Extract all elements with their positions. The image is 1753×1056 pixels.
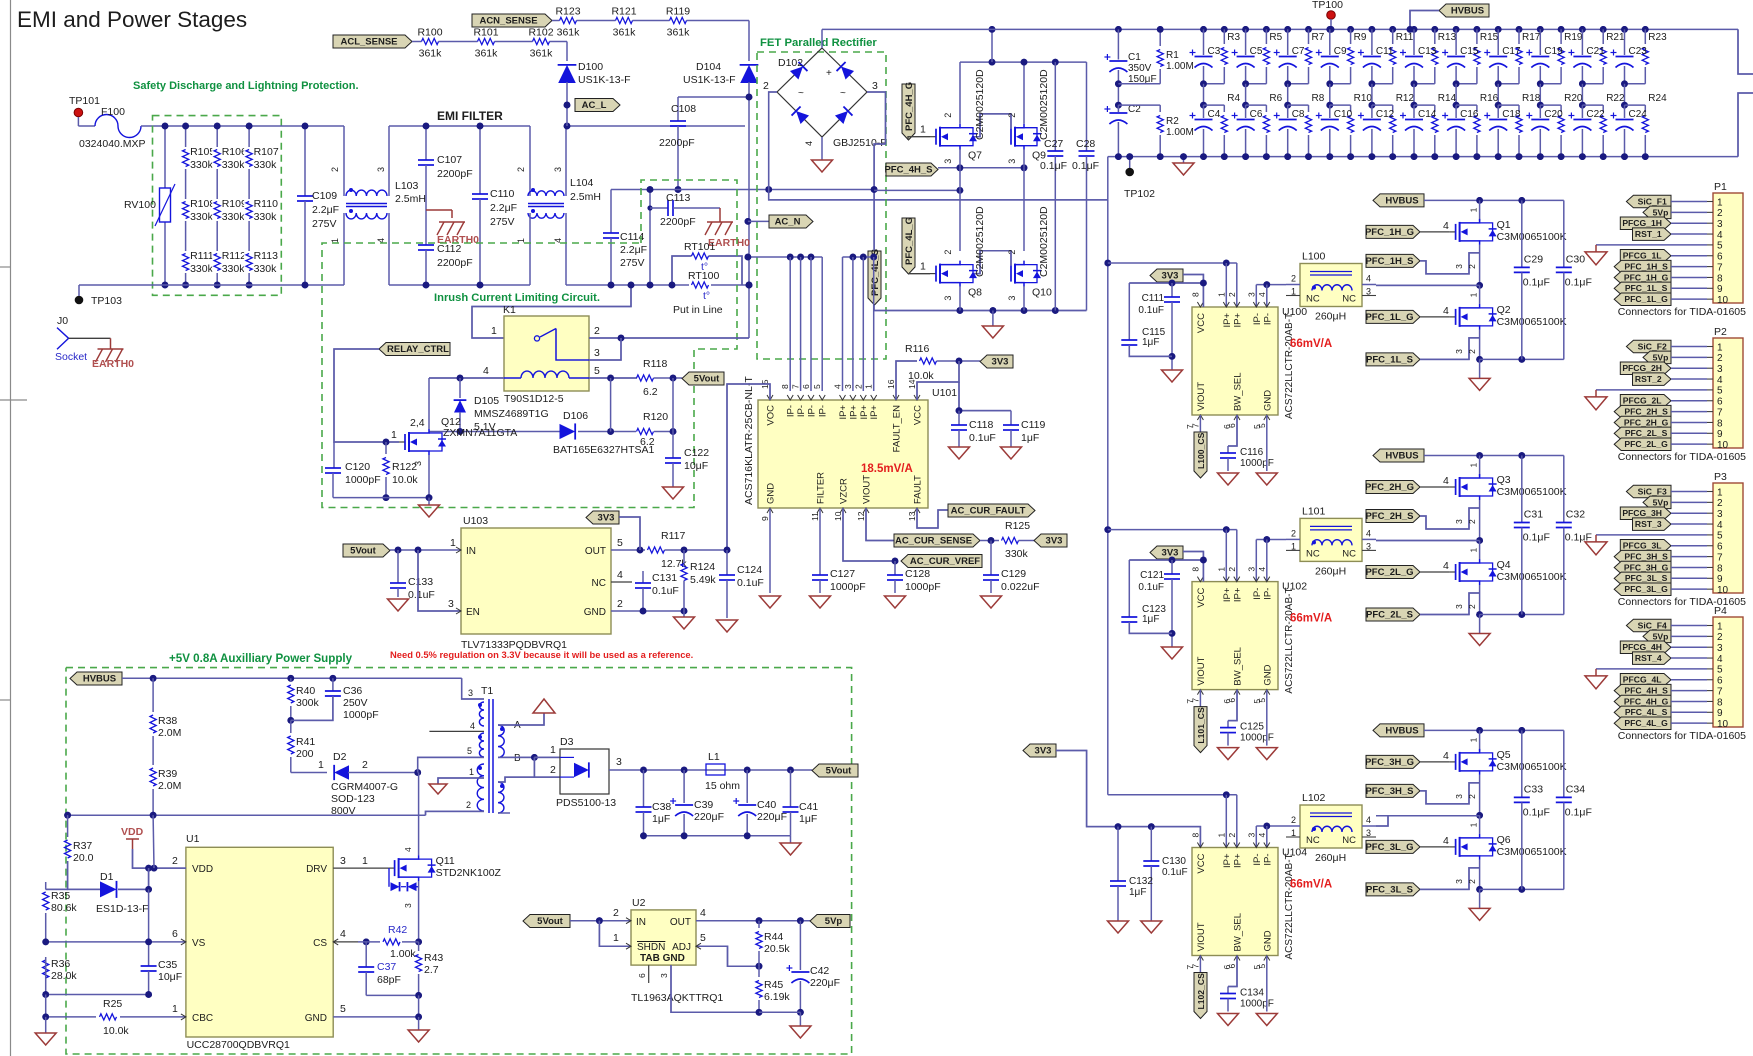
svg-text:NC: NC (1342, 548, 1356, 559)
svg-text:NC: NC (1306, 548, 1320, 559)
net flag RST_4 P4 (1633, 652, 1672, 665)
svg-text:6: 6 (1717, 676, 1723, 687)
resistor R37 20.0 (67, 815, 69, 837)
svg-text:1: 1 (1216, 567, 1226, 572)
net flag 3V3 bottom (1023, 744, 1056, 757)
svg-text:330k: 330k (254, 263, 278, 275)
capacitor C35 10uF (148, 942, 150, 966)
capacitor C115 (1128, 283, 1130, 340)
svg-text:1: 1 (491, 325, 497, 337)
svg-text:5Vp: 5Vp (825, 916, 843, 927)
svg-text:PFC_1L_S: PFC_1L_S (1366, 355, 1413, 366)
svg-text:3: 3 (1717, 364, 1723, 375)
capacitor C114 2.2uF 275V (610, 190, 612, 234)
net flag ACL_SENSE (333, 35, 412, 48)
resistor R116 10.0k (896, 361, 917, 400)
svg-text:TP100: TP100 (1312, 0, 1343, 11)
svg-text:Connectors for TIDA-01605: Connectors for TIDA-01605 (1618, 451, 1746, 463)
svg-text:R41: R41 (296, 736, 315, 748)
svg-text:350V: 350V (1128, 63, 1152, 74)
wire Q11 drain (418, 773, 420, 856)
ground below C127 (810, 596, 831, 608)
svg-text:R117: R117 (661, 530, 685, 542)
svg-text:PFC_4H_G: PFC_4H_G (1624, 696, 1669, 706)
svg-text:2: 2 (1467, 879, 1477, 884)
wire PFC_4L_S bus (874, 305, 1087, 311)
svg-text:RST_3: RST_3 (1635, 519, 1662, 529)
svg-text:R9: R9 (1354, 32, 1367, 43)
ground below C133 (388, 599, 409, 611)
svg-text:C37: C37 (377, 961, 396, 973)
svg-text:5Vout: 5Vout (694, 374, 721, 385)
svg-text:6: 6 (1717, 252, 1723, 263)
svg-text:R40: R40 (296, 685, 315, 697)
svg-text:D104: D104 (696, 61, 721, 73)
svg-text:5: 5 (617, 537, 623, 549)
svg-text:275V: 275V (312, 218, 337, 230)
svg-text:SiC_F2: SiC_F2 (1638, 341, 1667, 351)
svg-text:275V: 275V (490, 216, 515, 228)
svg-text:3: 3 (843, 384, 853, 389)
svg-text:0.1uF: 0.1uF (1138, 305, 1164, 316)
varistor RV100 (164, 126, 166, 188)
svg-text:5: 5 (1717, 665, 1723, 676)
svg-text:R45: R45 (764, 979, 783, 991)
svg-text:2: 2 (1717, 208, 1723, 219)
top bus segment A (y=126) (165, 125, 344, 127)
svg-text:PFC_3L_S: PFC_3L_S (1625, 573, 1668, 583)
svg-text:Q6: Q6 (1497, 834, 1511, 846)
op-amp U100 ACS722LLCTR-20AB-T box (1192, 307, 1278, 415)
svg-text:2: 2 (1467, 349, 1477, 354)
svg-text:C20: C20 (1544, 109, 1563, 120)
svg-text:3V3: 3V3 (992, 357, 1009, 368)
svg-text:RV100: RV100 (124, 199, 156, 211)
resistor R111 330k (181, 251, 191, 273)
svg-text:361k: 361k (557, 27, 581, 39)
net flag PFC_4H_G P4 (1614, 695, 1671, 708)
svg-text:Inrush Current Limiting Circui: Inrush Current Limiting Circuit. (434, 292, 600, 304)
net flag PFCG_3H P3 (1620, 507, 1671, 520)
wire C118/C119 bus (959, 382, 1011, 411)
ground below C118 (949, 447, 970, 459)
svg-text:DRV: DRV (306, 864, 327, 875)
svg-text:NC: NC (592, 578, 606, 589)
wire kelvin Q4 (1420, 593, 1480, 615)
ground below Q2 (1479, 359, 1481, 378)
capacitor C1 150uF 350V (1115, 26, 1122, 33)
svg-text:3V3: 3V3 (1162, 548, 1179, 559)
svg-text:L102: L102 (1302, 792, 1326, 804)
capacitor C132 (1117, 827, 1119, 881)
wire drain Q1 (1479, 200, 1481, 221)
svg-text:2: 2 (1007, 113, 1017, 118)
wire GND pin2 (611, 610, 684, 612)
svg-text:2: 2 (1467, 794, 1477, 799)
svg-text:3: 3 (616, 756, 622, 768)
svg-text:IP+: IP+ (1232, 853, 1243, 868)
svg-text:2: 2 (1291, 274, 1296, 284)
svg-text:SOD-123: SOD-123 (331, 793, 375, 805)
resistor R101 361k (478, 38, 495, 44)
capacitor C41 1uF (790, 770, 792, 807)
svg-text:L100: L100 (1302, 251, 1326, 263)
svg-text:ES1D-13-F: ES1D-13-F (96, 903, 149, 915)
svg-text:2: 2 (516, 167, 526, 172)
ground C130 (1141, 921, 1162, 933)
net flag PFCG_2H P2 (1620, 362, 1671, 375)
ground below bridge (812, 160, 833, 172)
svg-text:GND: GND (584, 607, 606, 618)
svg-text:Safety Discharge and Lightning: Safety Discharge and Lightning Protectio… (133, 80, 359, 92)
connector P3 box (1713, 483, 1743, 593)
svg-text:C128: C128 (905, 568, 930, 580)
svg-text:T90S1D12-5: T90S1D12-5 (504, 393, 564, 405)
svg-text:C111: C111 (1142, 293, 1165, 304)
svg-text:275V: 275V (620, 257, 645, 269)
svg-text:C13: C13 (1418, 46, 1437, 57)
svg-text:2: 2 (1007, 250, 1017, 255)
svg-text:EN: EN (466, 607, 480, 618)
svg-text:R43: R43 (424, 952, 443, 964)
capacitor C8 / resistor R8 bottom row (1287, 84, 1289, 105)
net flag AC_CUR_VREF (901, 555, 982, 568)
svg-text:TP103: TP103 (91, 295, 122, 307)
svg-text:TP102: TP102 (1124, 188, 1155, 200)
green dashed box Inrush Current Limiting (322, 180, 737, 508)
svg-text:6: 6 (801, 384, 811, 389)
op-amp U104 ACS722LLCTR-20AB-T box (1192, 848, 1278, 956)
svg-text:C107: C107 (437, 154, 462, 166)
svg-text:2: 2 (466, 800, 471, 810)
svg-text:C3M0065100K: C3M0065100K (1497, 761, 1567, 773)
net flag PFC_2H_G P2 (1614, 416, 1671, 429)
wire C37/R43 bottom (366, 994, 418, 996)
net flag HVBUS cell Q5 (1373, 724, 1424, 737)
svg-text:SiC_F4: SiC_F4 (1638, 620, 1667, 630)
svg-text:R1: R1 (1166, 50, 1179, 61)
svg-text:C3M0065100K: C3M0065100K (1497, 316, 1567, 328)
svg-text:ACS722LLCTR-20AB-T: ACS722LLCTR-20AB-T (1284, 587, 1295, 693)
svg-text:5.49k: 5.49k (690, 574, 716, 586)
sheet border left edge (10, 0, 12, 1056)
resistor R105 330k (181, 147, 191, 169)
capacitor C17 / resistor R17 top row (1495, 26, 1502, 33)
wire HVBUS rail Q3 (1424, 455, 1564, 457)
svg-text:C4: C4 (1208, 109, 1221, 120)
svg-text:D106: D106 (563, 410, 588, 422)
svg-text:8: 8 (1190, 833, 1200, 838)
svg-text:VCC: VCC (913, 405, 924, 425)
svg-text:VCC: VCC (1196, 313, 1207, 333)
net flag AC_L (564, 102, 571, 109)
ground below U102 (1256, 748, 1277, 760)
wire Q6 source to bottom (1479, 860, 1481, 890)
svg-text:9: 9 (1717, 574, 1723, 585)
svg-text:F100: F100 (101, 106, 125, 118)
net flag 3V3 at R125 (1034, 534, 1067, 547)
svg-text:C109: C109 (312, 190, 337, 202)
connector P1 box (1713, 193, 1743, 303)
wire IP- drops (789, 257, 791, 391)
svg-text:IP-: IP- (1252, 313, 1263, 325)
net flag PFC_3L_G P3 (1614, 583, 1671, 596)
svg-text:1: 1 (1717, 621, 1723, 632)
wire VDD to U1 (133, 849, 186, 868)
svg-text:0.1uF: 0.1uF (737, 577, 764, 589)
svg-text:4: 4 (1443, 560, 1449, 572)
svg-text:C40: C40 (757, 799, 776, 811)
net flag PFC_1L_S (1366, 353, 1420, 366)
wire R39 bottom to VDD row (152, 815, 155, 868)
svg-text:4: 4 (1257, 833, 1267, 838)
svg-text:12: 12 (856, 511, 866, 521)
svg-text:C38: C38 (652, 801, 671, 813)
svg-text:R3: R3 (1227, 32, 1240, 43)
capacitor C125 1000pF (1227, 721, 1229, 728)
svg-text:PFC_4L_G: PFC_4L_G (904, 217, 915, 265)
svg-text:20.5k: 20.5k (764, 943, 790, 955)
vertical flag PFC_4H_G (902, 84, 915, 140)
wire winding B (498, 756, 534, 758)
transistor Q8 C2M0025120D (930, 273, 936, 275)
net flag 5Vp P1 (1643, 206, 1671, 219)
svg-text:66mV/A: 66mV/A (1290, 879, 1332, 891)
capacitor C123 (1128, 560, 1130, 617)
svg-text:200: 200 (296, 748, 314, 760)
svg-text:1: 1 (550, 744, 556, 756)
wire IP- bus U102 (1256, 539, 1286, 541)
ground below C129 (981, 596, 1002, 608)
wire IP+ bus to U100 (1108, 262, 1237, 264)
resistor R42 1.00k (383, 939, 400, 945)
resistor R125 330k (1002, 537, 1019, 543)
wire DRV row (333, 867, 388, 869)
net flag PFCG_3L P3 (1620, 540, 1671, 553)
svg-text:C34: C34 (1566, 783, 1585, 795)
svg-text:7: 7 (1717, 407, 1723, 418)
svg-text:BW_SEL: BW_SEL (1233, 913, 1244, 952)
transformer T1 secondary (498, 725, 504, 757)
svg-text:1: 1 (920, 124, 926, 136)
test point TP102 (1129, 157, 1131, 168)
capacitor C40 220uF (746, 770, 748, 803)
svg-text:300k: 300k (296, 697, 320, 709)
svg-text:PFC_3L_G: PFC_3L_G (1624, 584, 1668, 594)
svg-text:1μF: 1μF (1142, 614, 1159, 625)
svg-text:R17: R17 (1522, 32, 1541, 43)
wire drain Q3 (1479, 456, 1481, 477)
svg-text:8: 8 (1190, 567, 1200, 572)
net flag 5Vout at U103 (343, 544, 390, 557)
svg-text:5Vout: 5Vout (350, 546, 377, 557)
svg-text:L101_CS: L101_CS (1196, 707, 1206, 744)
inductor L100 260uH (1300, 264, 1362, 307)
common-mode choke L103 2.5mH (343, 126, 345, 196)
svg-text:L101: L101 (1302, 505, 1326, 517)
resistor R41 200 (288, 736, 294, 754)
svg-text:3: 3 (1717, 509, 1723, 520)
capacitor C2 (1117, 105, 1119, 112)
svg-text:5: 5 (340, 1003, 346, 1015)
svg-text:260μH: 260μH (1315, 565, 1346, 577)
test point TP101 (74, 108, 83, 117)
svg-text:C2M0025120D: C2M0025120D (1038, 69, 1050, 140)
wire D3 inputs (534, 756, 560, 758)
svg-text:0.1uF: 0.1uF (408, 589, 435, 601)
svg-text:R8: R8 (1312, 93, 1325, 104)
svg-text:PFCG_3L: PFCG_3L (1623, 541, 1662, 551)
resistor R120 6.2 (637, 428, 654, 434)
ground below C42 (799, 1012, 801, 1026)
svg-text:PFCG_2L: PFCG_2L (1623, 396, 1662, 406)
svg-text:18.5mV/A: 18.5mV/A (861, 463, 913, 475)
svg-text:361k: 361k (475, 48, 499, 60)
svg-text:NC: NC (1306, 835, 1320, 846)
svg-text:PFCG_1L: PFCG_1L (1623, 251, 1662, 261)
svg-text:PFC_2L_G: PFC_2L_G (1365, 567, 1413, 578)
svg-text:1: 1 (1469, 463, 1479, 468)
svg-text:T1: T1 (481, 685, 493, 697)
capacitor C24 / resistor R24 bottom row (1624, 84, 1626, 105)
svg-text:IP-: IP- (786, 405, 797, 417)
wire Q2 source to bottom (1479, 330, 1481, 360)
svg-text:C15: C15 (1460, 46, 1479, 57)
svg-text:US1K-13-F: US1K-13-F (683, 74, 736, 86)
svg-text:ACS722LLCTR-20AB-T: ACS722LLCTR-20AB-T (1284, 853, 1295, 959)
svg-text:NC: NC (1306, 294, 1320, 305)
svg-text:1000pF: 1000pF (830, 581, 866, 593)
svg-text:VIOUT: VIOUT (862, 475, 873, 504)
net flag PFCG_4H P4 (1620, 641, 1671, 654)
resistor R106 330k (212, 147, 222, 169)
svg-text:0.1μF: 0.1μF (1040, 160, 1067, 172)
svg-text:C11: C11 (1376, 46, 1394, 57)
svg-text:220μF: 220μF (810, 977, 840, 989)
resistor R43 2.7 (418, 942, 420, 951)
resistor R35 80.6k (45, 882, 47, 889)
svg-text:C134: C134 (1240, 988, 1264, 999)
svg-text:R122: R122 (392, 461, 417, 473)
svg-text:3V3: 3V3 (1162, 271, 1179, 282)
net flag PFC_3H_G (1366, 755, 1420, 768)
wire kelvin Q3 (1420, 508, 1480, 529)
svg-text:R11: R11 (1396, 32, 1414, 43)
svg-text:C12: C12 (1376, 109, 1395, 120)
svg-text:260μH: 260μH (1315, 311, 1346, 323)
wire IP- bus (748, 256, 822, 258)
capacitor C3 / resistor R3 top row (1200, 26, 1207, 33)
svg-text:R23: R23 (1648, 32, 1667, 43)
wire 5Vout to IN (570, 920, 631, 922)
wire bridge left (AC) (769, 92, 777, 190)
wire VCC pin14 (917, 361, 959, 400)
svg-text:4: 4 (403, 847, 413, 852)
capacitor C131 0.1uF (642, 571, 644, 583)
svg-text:~: ~ (840, 88, 846, 99)
bottom bus segment A (y=285) (79, 284, 344, 286)
thermistor RT101 (672, 256, 692, 285)
capacitor C13 / resistor R13 top row (1411, 26, 1418, 33)
svg-text:EARTH0: EARTH0 (92, 358, 134, 370)
svg-text:2: 2 (617, 598, 623, 610)
svg-text:2200pF: 2200pF (437, 168, 473, 180)
svg-text:330k: 330k (222, 263, 246, 275)
wire bottom rail Q5 (1480, 888, 1564, 890)
net flag PFCG_2L P2 (1620, 395, 1671, 408)
wire GND pin3 U2 (671, 965, 759, 1012)
svg-text:7: 7 (1717, 552, 1723, 563)
capacitor C10 / resistor R10 bottom row (1329, 84, 1331, 105)
power arrow at A (533, 699, 555, 713)
wire IP- bus U104 (1256, 825, 1286, 827)
svg-text:8: 8 (1717, 273, 1723, 284)
net flag SiC_F4 P4 (1626, 619, 1671, 632)
common-mode choke L104 2.5mH (529, 126, 531, 196)
wire T1 pin5 (418, 757, 484, 772)
resistor R44 20.5k (758, 921, 760, 928)
stub T1 pin4 (429, 730, 484, 732)
svg-text:MMSZ4689T1G: MMSZ4689T1G (474, 408, 549, 420)
net flag PFC_3H_S P3 (1614, 550, 1671, 563)
ground below U1 (418, 1017, 420, 1030)
ground below C119 (1001, 447, 1022, 459)
wire Q7/Q9 drain bus (959, 62, 961, 124)
op-amp U101 ACS716 box (758, 400, 928, 508)
svg-text:AC_CUR_FAULT: AC_CUR_FAULT (951, 506, 1026, 517)
svg-text:R106: R106 (222, 146, 247, 158)
net flag 5Vp P4 (1643, 630, 1671, 643)
svg-text:R18: R18 (1522, 93, 1541, 104)
svg-text:PFC_4L_G: PFC_4L_G (1624, 718, 1668, 728)
wire L pin4 to mid node Q5 (1376, 815, 1480, 817)
svg-text:RST_4: RST_4 (1635, 653, 1662, 663)
svg-text:C122: C122 (684, 447, 709, 459)
capacitor C34 0.1uF (1563, 730, 1565, 797)
capacitor C128 1000pF (894, 561, 896, 575)
resistor R117 12.7k (648, 547, 665, 553)
svg-text:IP+: IP+ (1232, 587, 1243, 602)
svg-text:HVBUS: HVBUS (1385, 726, 1418, 737)
wire Q4 source to bottom (1479, 585, 1481, 615)
wire HVBUS rail Q1 (1424, 199, 1564, 201)
capacitor C120 1000pF (333, 442, 335, 468)
capacitor C11 / resistor R11 top row (1369, 26, 1376, 33)
wire EN pin3 (418, 550, 461, 611)
svg-text:4: 4 (1443, 475, 1449, 487)
svg-text:R111: R111 (190, 250, 214, 262)
svg-text:PFCG_3H: PFCG_3H (1622, 508, 1662, 518)
wire U2 bottom row (759, 1011, 800, 1013)
resistor R25 10.0k (100, 1014, 117, 1020)
net flag RST_3 P3 (1633, 518, 1672, 531)
regulator U103 box (461, 528, 611, 634)
capacitor C109 2.2uF 275V (304, 126, 306, 196)
resistor R124 5.49k (683, 550, 685, 564)
svg-text:BW_SEL: BW_SEL (1233, 647, 1244, 686)
net flag 3V3 U102 (1150, 546, 1183, 559)
capacitor C110 2.2uF 275V (479, 126, 481, 194)
wire R118-R120 link (610, 378, 612, 432)
net flag 3V3 U100 (1150, 269, 1183, 282)
wire kelvin Q1 (1420, 253, 1480, 274)
svg-text:2.2μF: 2.2μF (490, 202, 517, 214)
wire Q12 drain row (429, 431, 560, 433)
svg-text:2: 2 (330, 167, 340, 172)
wire sense to R125 (980, 540, 999, 542)
wire bridge + to top rail (821, 29, 823, 48)
svg-text:80.6k: 80.6k (51, 902, 77, 914)
